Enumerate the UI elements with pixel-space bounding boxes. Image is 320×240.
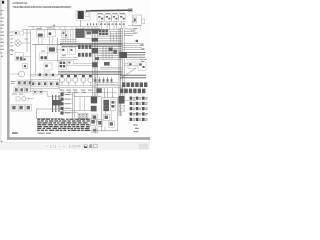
junction cross node: [53, 24, 56, 29]
oil switch box: [16, 97, 34, 101]
bus tick junctions: [33, 26, 96, 30]
ignition switch S1: [76, 10, 90, 20]
left bus vertical pair: [27, 30, 31, 92]
harness wires into starter box: [105, 88, 113, 98]
coil row box 3: [43, 81, 47, 86]
inner starter box: [102, 98, 118, 131]
right lower dark connector: [118, 96, 124, 104]
regulator cluster box 3: [92, 128, 98, 133]
diagonal harness wire: [120, 68, 136, 79]
solenoid small box: [103, 114, 109, 120]
left margin cut-off text column: [0, 10, 4, 57]
starter motor M: [103, 100, 109, 111]
page bottom edge gray bar: [7, 137, 150, 140]
right bus band lower: [120, 75, 146, 78]
horn unit: [15, 53, 31, 61]
stray speck bottom left: [1, 141, 2, 142]
regulator mid box: [44, 63, 52, 70]
coil row bus wire: [30, 87, 60, 89]
handlebar switch block labels: [98, 12, 126, 15]
instrument bus band: [58, 71, 122, 74]
pulse coil dark: [52, 100, 62, 105]
lower cross wires: [98, 46, 122, 59]
wire to terminal grid: [125, 100, 136, 102]
neutral switch box: [67, 60, 73, 65]
earth bus wires center: [58, 82, 118, 112]
clutch switch box: [44, 72, 50, 78]
svg-text:TYPICAL WIRING DIAGRAM FOR MOT: TYPICAL WIRING DIAGRAM FOR MOTORCYCLE MO…: [12, 5, 71, 9]
page number dash: [12, 132, 18, 133]
wire drops from switch boxes: [99, 21, 124, 29]
front brake switch: [14, 31, 24, 35]
ignition lock: [15, 40, 31, 46]
left window edge strip: [0, 0, 2, 150]
left label text marks: [10, 32, 28, 55]
spark plug box 1: [33, 90, 37, 94]
cross wires right of harness: [98, 30, 122, 42]
switch box SW3: [112, 15, 118, 21]
left stub connector: [10, 49, 15, 51]
right label text: [131, 28, 138, 33]
sensor box with X: [119, 105, 125, 116]
regulator cluster wire: [94, 126, 96, 134]
legend caption: [38, 133, 52, 134]
terminal grid right: [130, 97, 145, 121]
dark connector left of band: [120, 52, 128, 58]
wires rectifier drops: [39, 37, 53, 45]
svg-text:‹ 1/1 › — 100% +: ‹ 1/1 › — 100% +: [46, 143, 86, 148]
earth connector box: [108, 121, 114, 127]
rear lamp unit: [138, 62, 146, 70]
fuse row 2 labels: [12, 93, 23, 96]
sidestand switch dot: [39, 73, 41, 76]
connector block C: [113, 50, 116, 54]
svg-text:HAYNES MANUAL: HAYNES MANUAL: [12, 1, 28, 5]
fuse row 2: [14, 87, 29, 93]
switch box SW2: [105, 15, 111, 21]
starter relay: [47, 46, 62, 53]
starter solenoid grid: [78, 113, 88, 119]
indicator lamp: [73, 75, 78, 82]
mid cross wires: [30, 75, 60, 80]
brake switch rear: [22, 64, 27, 69]
flasher relay: [61, 47, 68, 54]
tail light symbols left: [20, 58, 25, 60]
switch symbol row: [96, 77, 112, 83]
regulator cluster box 2: [97, 120, 103, 127]
toolbar top border: [0, 141, 150, 144]
neutral lamp: [81, 75, 86, 82]
twin vertical feed: [73, 92, 75, 120]
left-center wires: [31, 92, 62, 97]
meter feed wires: [100, 64, 138, 69]
toolbar extra icon: [94, 144, 98, 147]
harness lower dark segment B: [91, 106, 97, 112]
wires to meters: [74, 63, 94, 65]
band continuation wire: [126, 58, 146, 60]
fuse row 1 labels: [11, 81, 16, 84]
right wire end marks: [141, 44, 145, 49]
diode unit: [69, 47, 75, 54]
right footnote marks: [133, 125, 139, 133]
high beam lamp: [88, 75, 93, 82]
right terminal labels: [124, 29, 136, 36]
relay labels small: [61, 46, 72, 56]
vertical feed wires: [36, 38, 58, 75]
center vertical harness: [93, 28, 98, 96]
right cross wires upper: [122, 44, 144, 50]
battery B1: [39, 53, 62, 60]
dark harness segment: [85, 29, 100, 31]
coil row box 5: [55, 81, 59, 86]
harness vertical x124: [123, 30, 125, 96]
right components upper: [128, 62, 136, 68]
harness bus bar top right: [85, 10, 132, 12]
right connector row 1: [122, 82, 147, 87]
right connector row 2: [120, 89, 145, 94]
coil feed lines: [60, 40, 77, 42]
main center dark bus band: [60, 43, 122, 46]
solenoid grid specks: [79, 114, 88, 119]
junction dark spot: [95, 57, 99, 60]
ground return wire L: [36, 109, 62, 119]
viewer toolbar: [0, 142, 150, 150]
connector grid A: [99, 29, 108, 35]
battery box outline: [74, 97, 118, 131]
coil dark E: [104, 62, 110, 66]
fuse list column: [60, 93, 70, 115]
wire drop from ignition switch: [80, 20, 82, 27]
connector box at bar end: [129, 9, 133, 12]
switch box SW4: [119, 15, 126, 21]
black corner mark: [2, 1, 4, 4]
wires under relays: [60, 58, 78, 60]
headlamp unit: [133, 15, 142, 25]
coil row box 1: [31, 81, 35, 86]
CDI connector rows: [78, 45, 91, 57]
page left edge gray bar: [7, 0, 9, 140]
regulator box: [47, 29, 55, 37]
harness connector blocks: [92, 30, 99, 53]
pilot lamp box: [142, 19, 145, 24]
right main harness vertical: [119, 28, 122, 116]
legend key text block: [37, 119, 90, 131]
terminal tick row: [87, 23, 125, 25]
band end text marks: [140, 59, 147, 62]
ignition pulse wires: [53, 95, 59, 112]
starter relay box: [110, 100, 115, 111]
connector block B: [109, 48, 113, 51]
mid bus wire left: [32, 44, 62, 46]
speedometer lamp: [59, 75, 64, 82]
fuse box FB1: [61, 31, 68, 37]
svg-text:⬓ ⎙: ⬓ ⎙: [84, 144, 93, 149]
switch box SW1: [97, 15, 104, 21]
coil row box 2: [37, 81, 41, 86]
ignition coil pack: [76, 29, 92, 39]
wire headlamp feed: [128, 22, 141, 30]
switch contact marks: [95, 79, 113, 81]
main top bus wire: [22, 27, 120, 30]
battery box inner wires: [80, 97, 85, 111]
toolbar button: [139, 144, 149, 149]
junction box small: [97, 88, 102, 92]
wire brake to bus: [24, 32, 31, 34]
alternator block: [58, 60, 66, 69]
starter wires: [105, 110, 111, 130]
wire drops center: [63, 30, 76, 44]
relay dot mid: [52, 74, 54, 76]
regulator cluster box 1: [90, 119, 96, 126]
terminal grid labels: [133, 97, 148, 121]
junction dot: [136, 40, 138, 42]
under-lamp bus wires: [58, 86, 122, 88]
harness lower connector box: [91, 114, 97, 121]
rectifier box: [36, 30, 44, 38]
right dark band: [119, 53, 145, 58]
horn button circle: [10, 71, 25, 77]
relay trio row: [11, 104, 31, 111]
component labels top-left: [37, 27, 62, 51]
lamp label text row: [60, 90, 93, 93]
harness junction ticks: [111, 31, 117, 42]
tachometer lamp: [66, 75, 71, 82]
fuse row 1: [17, 80, 32, 86]
harness lower dark segment A: [91, 96, 97, 103]
spark plug box 2: [39, 90, 43, 94]
fuse list links: [70, 95, 73, 113]
coil row box 4: [49, 81, 53, 86]
connector dark D: [92, 62, 97, 67]
lamp drop wires: [62, 83, 90, 86]
